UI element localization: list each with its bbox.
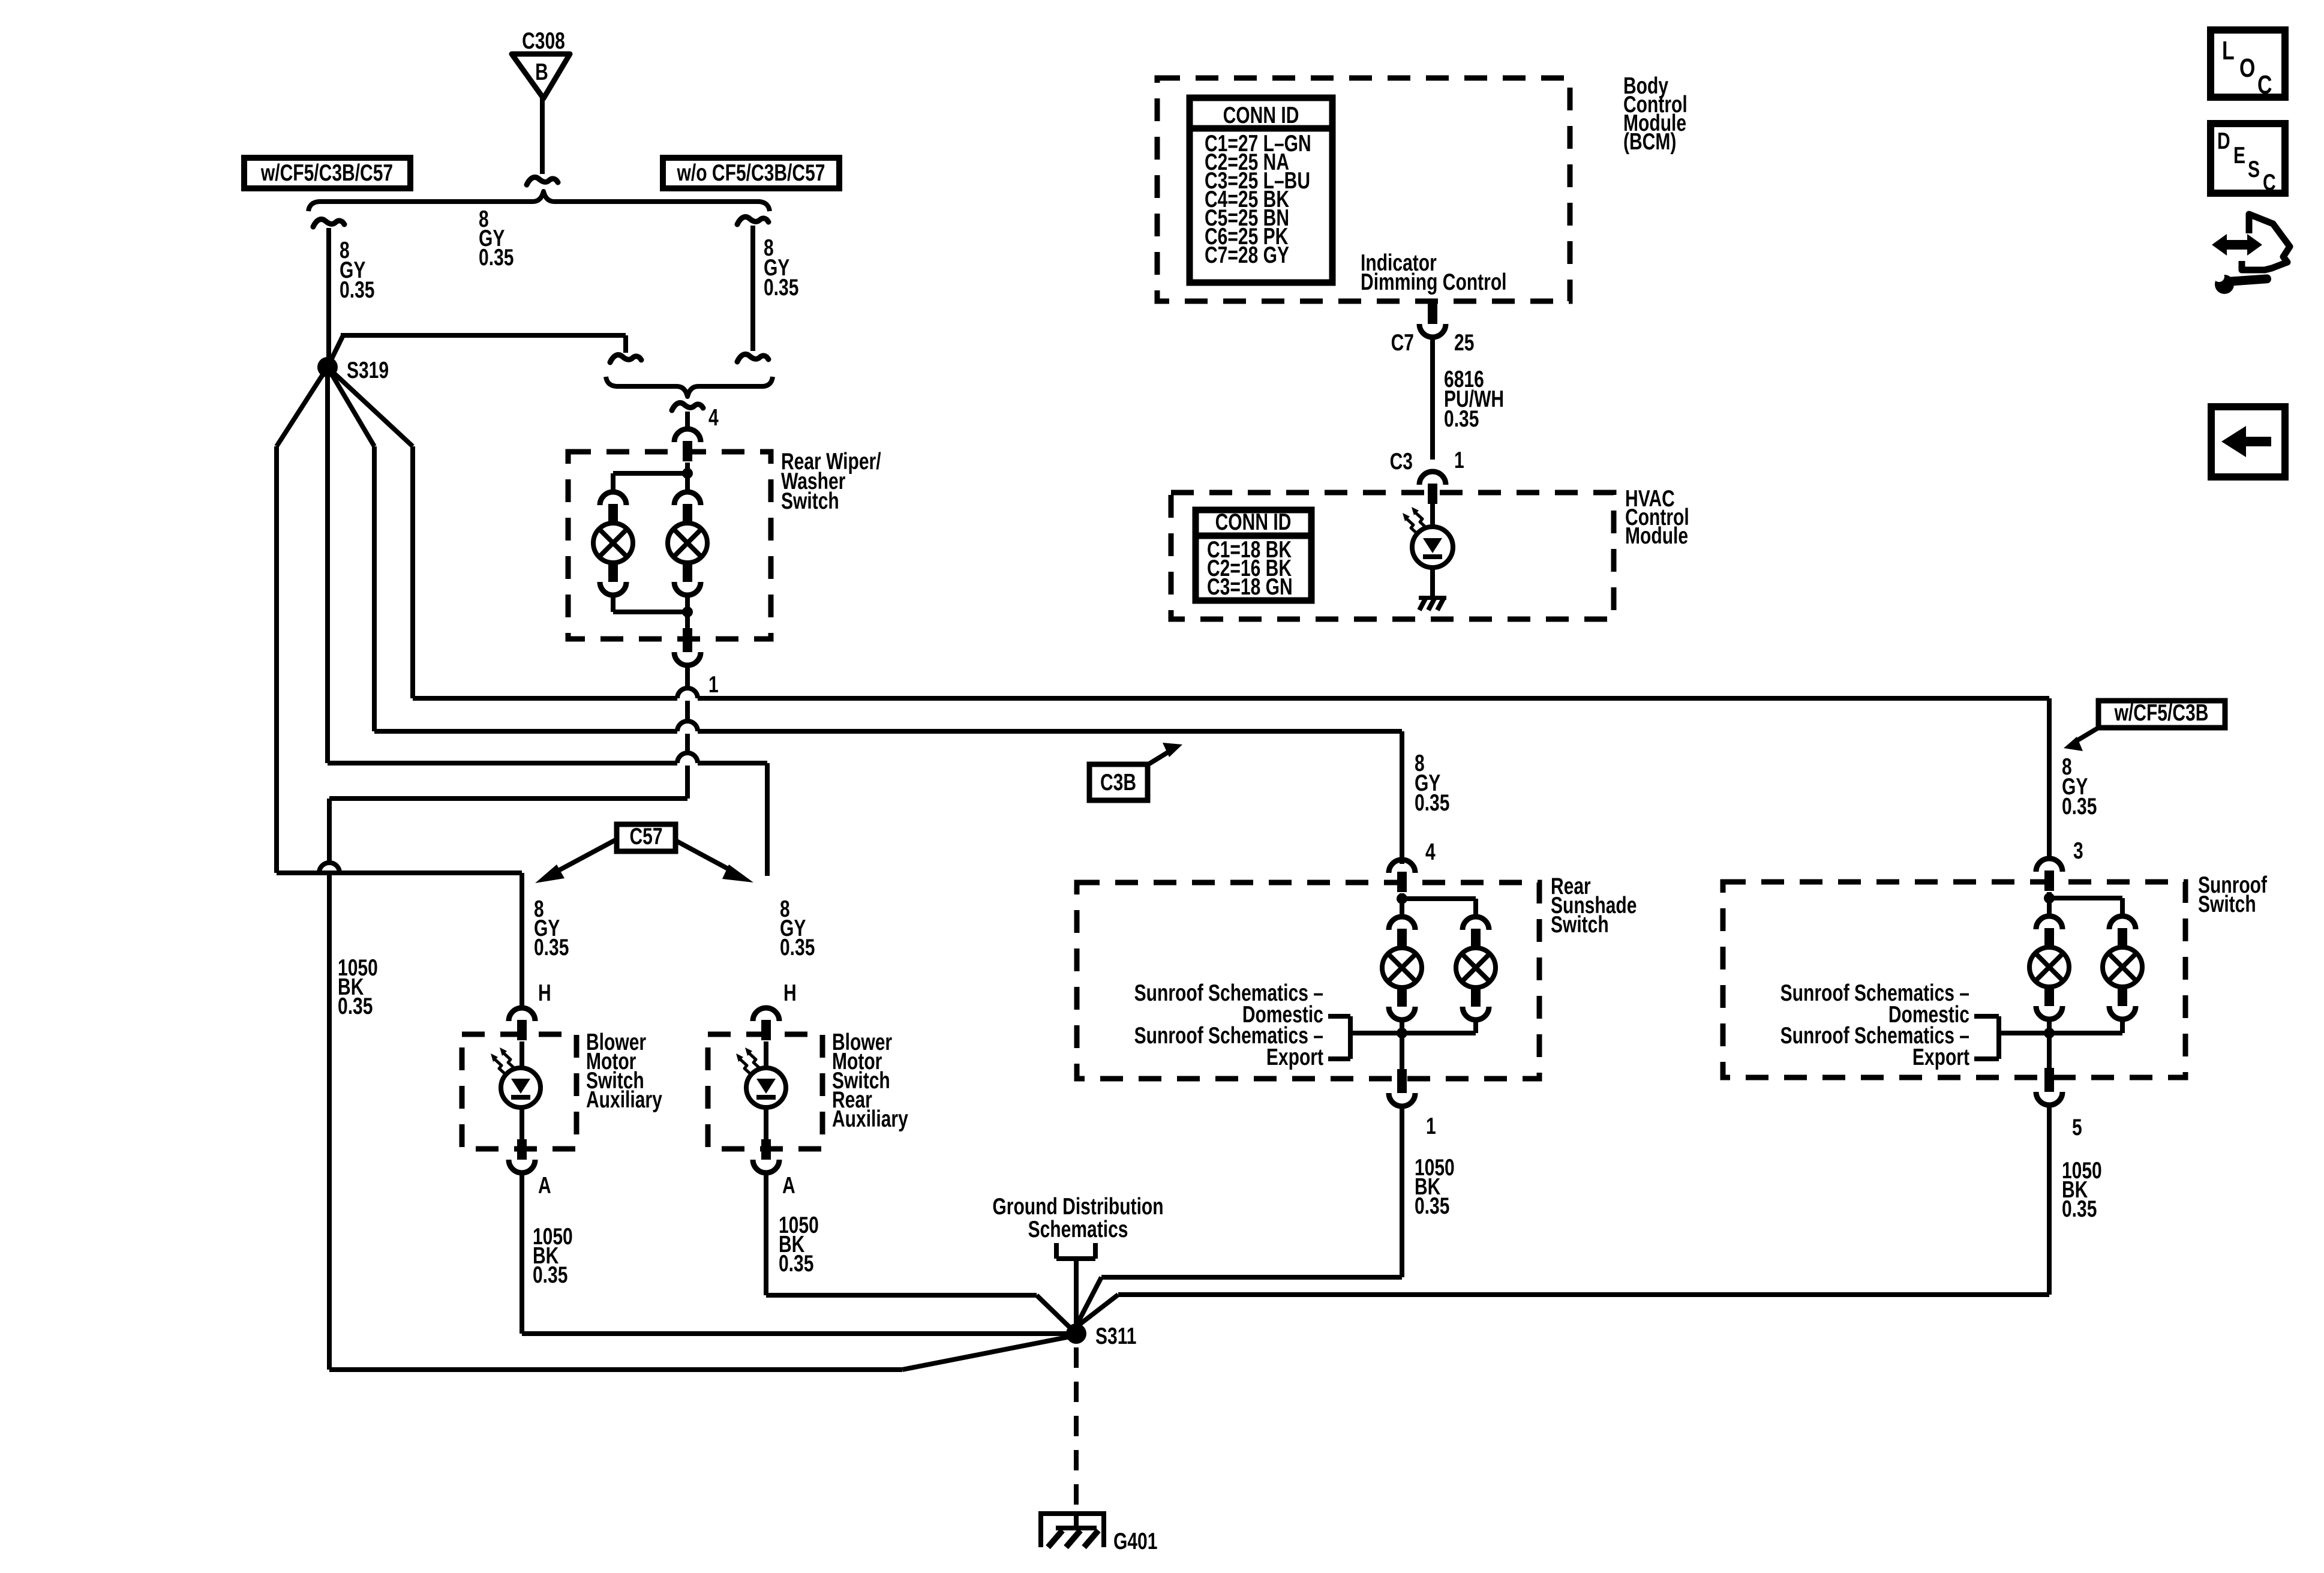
svg-text:C57: C57	[629, 823, 662, 849]
svg-text:Auxiliary: Auxiliary	[832, 1106, 908, 1132]
svg-text:1: 1	[1426, 1113, 1436, 1139]
svg-text:Export: Export	[1266, 1044, 1323, 1070]
svg-text:S319: S319	[347, 357, 389, 383]
svg-text:C3: C3	[1390, 448, 1413, 475]
svg-text:Auxiliary: Auxiliary	[586, 1086, 662, 1113]
svg-text:B: B	[535, 59, 548, 85]
svg-text:Schematics: Schematics	[1028, 1216, 1128, 1242]
svg-text:0.35: 0.35	[534, 934, 569, 960]
svg-text:Dimming Control: Dimming Control	[1361, 269, 1506, 295]
svg-text:0.35: 0.35	[1415, 789, 1449, 816]
svg-text:w/CF5/C3B: w/CF5/C3B	[2114, 700, 2209, 726]
svg-text:0.35: 0.35	[340, 277, 374, 303]
svg-text:Switch: Switch	[1551, 911, 1609, 938]
svg-text:C7: C7	[1391, 329, 1414, 356]
svg-text:Switch: Switch	[781, 488, 839, 514]
svg-text:A: A	[782, 1172, 795, 1199]
svg-text:C3=18 GN: C3=18 GN	[1207, 574, 1293, 600]
svg-text:4: 4	[708, 404, 719, 431]
svg-text:0.35: 0.35	[2062, 1196, 2097, 1222]
svg-text:0.35: 0.35	[2062, 793, 2097, 819]
svg-text:0.35: 0.35	[479, 244, 514, 271]
svg-text:C: C	[2257, 70, 2272, 100]
svg-text:1: 1	[1454, 447, 1464, 473]
svg-text:C3B: C3B	[1100, 769, 1136, 795]
svg-text:O: O	[2239, 53, 2255, 83]
svg-text:3: 3	[2073, 837, 2083, 864]
svg-text:D: D	[2217, 128, 2230, 154]
svg-text:Switch: Switch	[2198, 891, 2256, 917]
svg-text:G401: G401	[1113, 1528, 1157, 1554]
svg-text:CONN ID: CONN ID	[1215, 509, 1292, 535]
svg-text:S311: S311	[1095, 1323, 1136, 1349]
svg-text:(BCM): (BCM)	[1623, 128, 1676, 155]
svg-text:0.35: 0.35	[1415, 1193, 1449, 1219]
svg-text:0.35: 0.35	[780, 934, 815, 960]
svg-text:S: S	[2248, 156, 2260, 182]
svg-text:CONN ID: CONN ID	[1223, 102, 1299, 128]
svg-text:0.35: 0.35	[779, 1250, 813, 1277]
svg-text:C7=28 GY: C7=28 GY	[1205, 242, 1289, 268]
svg-text:w/o CF5/C3B/C57: w/o CF5/C3B/C57	[677, 160, 825, 186]
svg-text:Export: Export	[1912, 1044, 1969, 1070]
svg-text:A: A	[538, 1172, 551, 1199]
svg-text:C: C	[2263, 169, 2276, 196]
svg-text:0.35: 0.35	[338, 993, 373, 1019]
svg-text:1: 1	[708, 671, 719, 698]
svg-text:25: 25	[1454, 329, 1474, 356]
svg-text:4: 4	[1425, 839, 1436, 865]
svg-text:H: H	[783, 980, 797, 1006]
svg-text:E: E	[2233, 142, 2245, 169]
svg-text:L: L	[2222, 36, 2235, 65]
svg-text:5: 5	[2072, 1114, 2082, 1140]
svg-text:0.35: 0.35	[764, 274, 798, 301]
svg-text:H: H	[538, 980, 551, 1006]
svg-text:0.35: 0.35	[1444, 406, 1479, 432]
svg-text:C308: C308	[522, 28, 565, 54]
svg-text:w/CF5/C3B/C57: w/CF5/C3B/C57	[260, 160, 393, 186]
svg-text:Module: Module	[1625, 523, 1688, 549]
svg-text:0.35: 0.35	[533, 1262, 568, 1288]
